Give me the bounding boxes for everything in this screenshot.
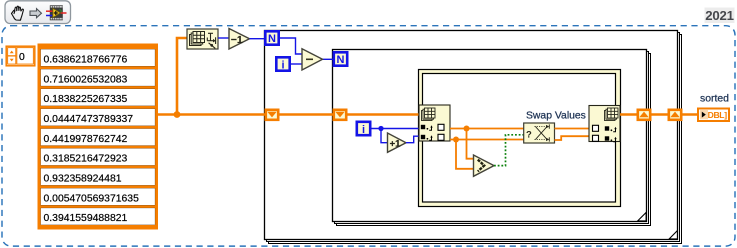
tunnel outer right bbox=[669, 110, 681, 120]
array element cells bbox=[41, 49, 155, 225]
folded corner outer loop bbox=[669, 231, 677, 239]
swap values function bbox=[524, 123, 555, 143]
greater than function bbox=[474, 155, 495, 176]
tunnel middle right bbox=[638, 110, 650, 120]
array index control bbox=[6, 46, 35, 66]
wire swap to node2 row2 bbox=[555, 136, 591, 140]
wire i2 to node row1 bbox=[372, 128, 421, 130]
svg-text:?: ? bbox=[526, 129, 532, 140]
IPE right border node bbox=[589, 106, 620, 142]
svg-text:0.1838225267335: 0.1838225267335 bbox=[44, 94, 128, 105]
hand tool icon bbox=[12, 6, 24, 20]
wire i1 to subtract bbox=[291, 63, 302, 65]
svg-text:0.7160026532083: 0.7160026532083 bbox=[44, 74, 128, 85]
svg-text:+1: +1 bbox=[390, 139, 402, 150]
wire row1 down to greater bbox=[467, 129, 474, 159]
in place element structure border bbox=[419, 70, 621, 207]
toolbar bbox=[5, 1, 71, 24]
wire N1 to subtract bbox=[280, 38, 302, 54]
svg-text:0.932358924481: 0.932358924481 bbox=[44, 174, 122, 185]
wire subtract to N2 bbox=[323, 58, 334, 60]
junction dot i2 bbox=[378, 126, 383, 131]
junction dot array bbox=[174, 111, 181, 118]
wire tunnel3 to tunnel4 bbox=[650, 113, 669, 116]
junction dot row1 bbox=[464, 126, 470, 132]
wire row2 down to greater bbox=[456, 140, 474, 169]
svg-text:0.3941559488821: 0.3941559488821 bbox=[44, 213, 128, 224]
wire node2 to tunnel3 bbox=[620, 113, 638, 116]
i2 iteration terminal bbox=[357, 122, 370, 136]
svg-text:N: N bbox=[268, 33, 276, 45]
wire tunnel2 to IPE node bbox=[346, 113, 420, 116]
IPE left border node bbox=[419, 105, 450, 141]
for loop outer border bbox=[265, 31, 682, 244]
wire increment to node row2 bbox=[406, 136, 420, 143]
svg-text:−1: −1 bbox=[231, 34, 243, 46]
array constant frame bbox=[38, 44, 159, 230]
version label 2021 bbox=[705, 8, 735, 24]
array size function bbox=[187, 29, 218, 49]
wire split up to array size bbox=[177, 38, 187, 115]
subtract function bbox=[302, 49, 323, 70]
film/animation icon bbox=[46, 5, 67, 20]
wire tunnel1 to tunnel2 bbox=[279, 113, 334, 116]
arrow tool icon bbox=[30, 9, 42, 18]
wire node1 row2 to swap bbox=[450, 139, 524, 141]
svg-text:0.005470569371635: 0.005470569371635 bbox=[44, 193, 140, 204]
i1 iteration terminal bbox=[276, 57, 289, 71]
wire node1 row1 to swap bbox=[450, 128, 524, 130]
svg-text:sorted: sorted bbox=[700, 94, 729, 105]
svg-text:2021: 2021 bbox=[705, 8, 734, 23]
svg-text:DBL]: DBL] bbox=[708, 110, 728, 120]
tunnel outer left bbox=[266, 110, 278, 120]
svg-text:N: N bbox=[337, 54, 345, 66]
svg-text:i: i bbox=[362, 124, 365, 136]
svg-text:0.6386218766776: 0.6386218766776 bbox=[44, 54, 128, 65]
svg-text:0.3185216472923: 0.3185216472923 bbox=[44, 154, 128, 165]
decrement function bbox=[229, 29, 250, 50]
wire branch to increment bbox=[381, 129, 388, 143]
tunnel middle left bbox=[334, 110, 346, 120]
svg-text:Swap Values: Swap Values bbox=[526, 110, 586, 121]
svg-text:i: i bbox=[281, 59, 284, 71]
N2 count terminal bbox=[334, 52, 347, 66]
wire swap to node2 row1 bbox=[555, 128, 591, 130]
wire array to split bbox=[158, 113, 265, 116]
svg-text:0: 0 bbox=[19, 52, 25, 63]
N1 count terminal bbox=[265, 31, 278, 45]
junction dot row2 bbox=[453, 137, 459, 143]
svg-text:0.04447473789337: 0.04447473789337 bbox=[44, 114, 134, 125]
boolean wire greater to swap bbox=[494, 135, 524, 166]
for loop middle border bbox=[333, 50, 651, 226]
wire array size to decrement bbox=[218, 37, 229, 39]
wire tunnel4 to indicator bbox=[681, 113, 698, 116]
increment function bbox=[388, 133, 407, 152]
folded corner middle loop bbox=[638, 213, 646, 221]
sorted indicator terminal bbox=[698, 109, 729, 122]
svg-text:0.4419978762742: 0.4419978762742 bbox=[44, 134, 128, 145]
wire decrement to N bbox=[250, 38, 266, 40]
